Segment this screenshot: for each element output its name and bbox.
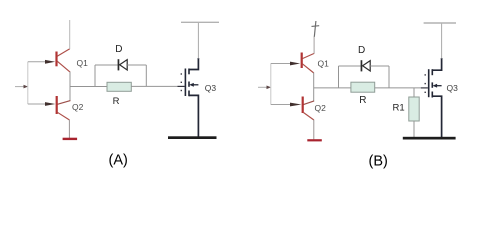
transistor Q2 (A) emitter stroke (57, 112, 69, 120)
power rail top bar A (181, 21, 219, 23)
svg-text:(A): (A) (109, 153, 128, 169)
wire: loop right vertical B (388, 66, 390, 88)
power symbol (dagger) B (314, 21, 316, 37)
wire: top rail riser B (441, 23, 443, 59)
mosfet Q3 (A) gate dots (181, 73, 182, 74)
mosfet Q3 (B) gate dots (425, 74, 426, 75)
wire: gate lead A (131, 85, 177, 87)
node IN_B arrowhead (267, 86, 272, 90)
wire: gate lead A dark tip (178, 85, 185, 87)
wire: Q1A base lead (28, 61, 46, 63)
svg-text:D: D (358, 45, 365, 56)
mosfet Q3 (B) drain link (432, 58, 442, 70)
svg-text:Q2: Q2 (72, 102, 84, 112)
transistor Q1 (A) base arrow (45, 60, 55, 64)
wire: R1 top lead (413, 88, 415, 97)
resistor R1 (B) body (409, 97, 419, 121)
transistor Q1 (B) collector stroke (302, 53, 314, 58)
transistor Q1 (B) base arrow (290, 62, 300, 66)
transistor Q1 (A) collector stroke (57, 49, 70, 56)
mosfet Q3 (A) source link (189, 95, 199, 136)
transistor Q1 (A) emitter stroke (57, 61, 70, 72)
svg-text:R: R (359, 95, 366, 106)
transistor Q1 (A) base bar (55, 52, 57, 67)
svg-text:Q2: Q2 (315, 103, 327, 113)
power rail top bar B (424, 22, 456, 24)
wire: Q2B emitter down (313, 120, 315, 140)
wire: main output line A (70, 86, 107, 88)
diode D (B) cathode bar (361, 60, 363, 71)
ground (red bar) circuit A (63, 138, 78, 140)
transistor Q2 (A) base arrow (45, 102, 55, 106)
transistor Q2 (B) base arrow (290, 103, 301, 107)
resistor R (A) body (107, 82, 131, 91)
transistor Q2 (A) base bar (56, 96, 58, 114)
svg-text:Q1: Q1 (77, 58, 89, 68)
wire: main output line B (314, 87, 351, 89)
wire: gate lead B dark tip (421, 87, 428, 89)
wire: loop left vertical B (338, 66, 340, 88)
svg-text:(B): (B) (369, 154, 388, 170)
transistor Q2 (B) base bar (302, 97, 304, 114)
wire: Q1B base lead (271, 63, 291, 65)
wire: diode branch left A (95, 64, 118, 66)
ground (black bar) circuit A (168, 136, 217, 139)
mosfet Q3 (B) source link (432, 96, 442, 137)
wire: Q2A base lead (28, 103, 46, 105)
wire: left base bus B (270, 64, 272, 105)
transistor Q2 (A) collector stroke (57, 101, 70, 105)
mosfet Q3 (A) drain link (189, 58, 199, 70)
wire: Q1B emitter to node (313, 73, 315, 102)
mosfet Q3 (B) body arrow (436, 85, 441, 87)
wire: gate lead B (375, 87, 421, 89)
transistor Q2 (B) collector stroke (303, 101, 314, 105)
ground (black bar) circuit B (403, 137, 456, 140)
node IN_A: input wire (15, 86, 24, 88)
wire: diode branch left B (339, 65, 361, 67)
resistor R (B) body (351, 82, 375, 92)
transistor Q1 (B) emitter stroke (302, 64, 313, 73)
diode D (A) triangle (120, 60, 128, 70)
wire: top rail riser A (197, 22, 199, 58)
wire: diode branch right A (127, 64, 146, 66)
ground (red bar) circuit B (307, 139, 322, 141)
wire: R1 bottom lead (413, 121, 415, 138)
wire: Q2A emitter down (68, 120, 70, 138)
mosfet Q3 (B) gate plate (428, 69, 430, 97)
wire: loop right vertical A (145, 65, 147, 87)
wire: Q2B base lead (271, 104, 291, 106)
wire: Q1A collector riser (69, 20, 71, 49)
wire: left base bus A (27, 62, 29, 104)
wire: loop left vertical A (94, 65, 96, 87)
node IN_A arrowhead (24, 85, 29, 89)
mosfet Q3 (A) gate plate (185, 69, 187, 97)
svg-text:Q3: Q3 (447, 83, 459, 93)
transistor Q2 (B) emitter stroke (304, 113, 314, 120)
wire: Q1A emitter to node (69, 72, 71, 101)
wire: Q1B collector riser (313, 37, 315, 54)
node IN_B: input wire (258, 86, 267, 88)
mosfet Q3 (A) body arrow (193, 84, 198, 86)
svg-text:R1: R1 (393, 103, 405, 114)
svg-text:Q3: Q3 (205, 83, 217, 93)
svg-text:D: D (115, 44, 122, 55)
mosfet Q3 (A) channel segments (188, 69, 190, 75)
diode D (B) triangle (363, 61, 371, 71)
mosfet Q3 (B) channel segments (432, 69, 434, 75)
diode D (A) cathode bar (118, 59, 120, 70)
wire: diode branch right B (370, 65, 389, 67)
transistor Q1 (B) base bar (301, 53, 303, 69)
svg-text:R: R (113, 96, 120, 107)
svg-text:Q1: Q1 (318, 59, 330, 69)
